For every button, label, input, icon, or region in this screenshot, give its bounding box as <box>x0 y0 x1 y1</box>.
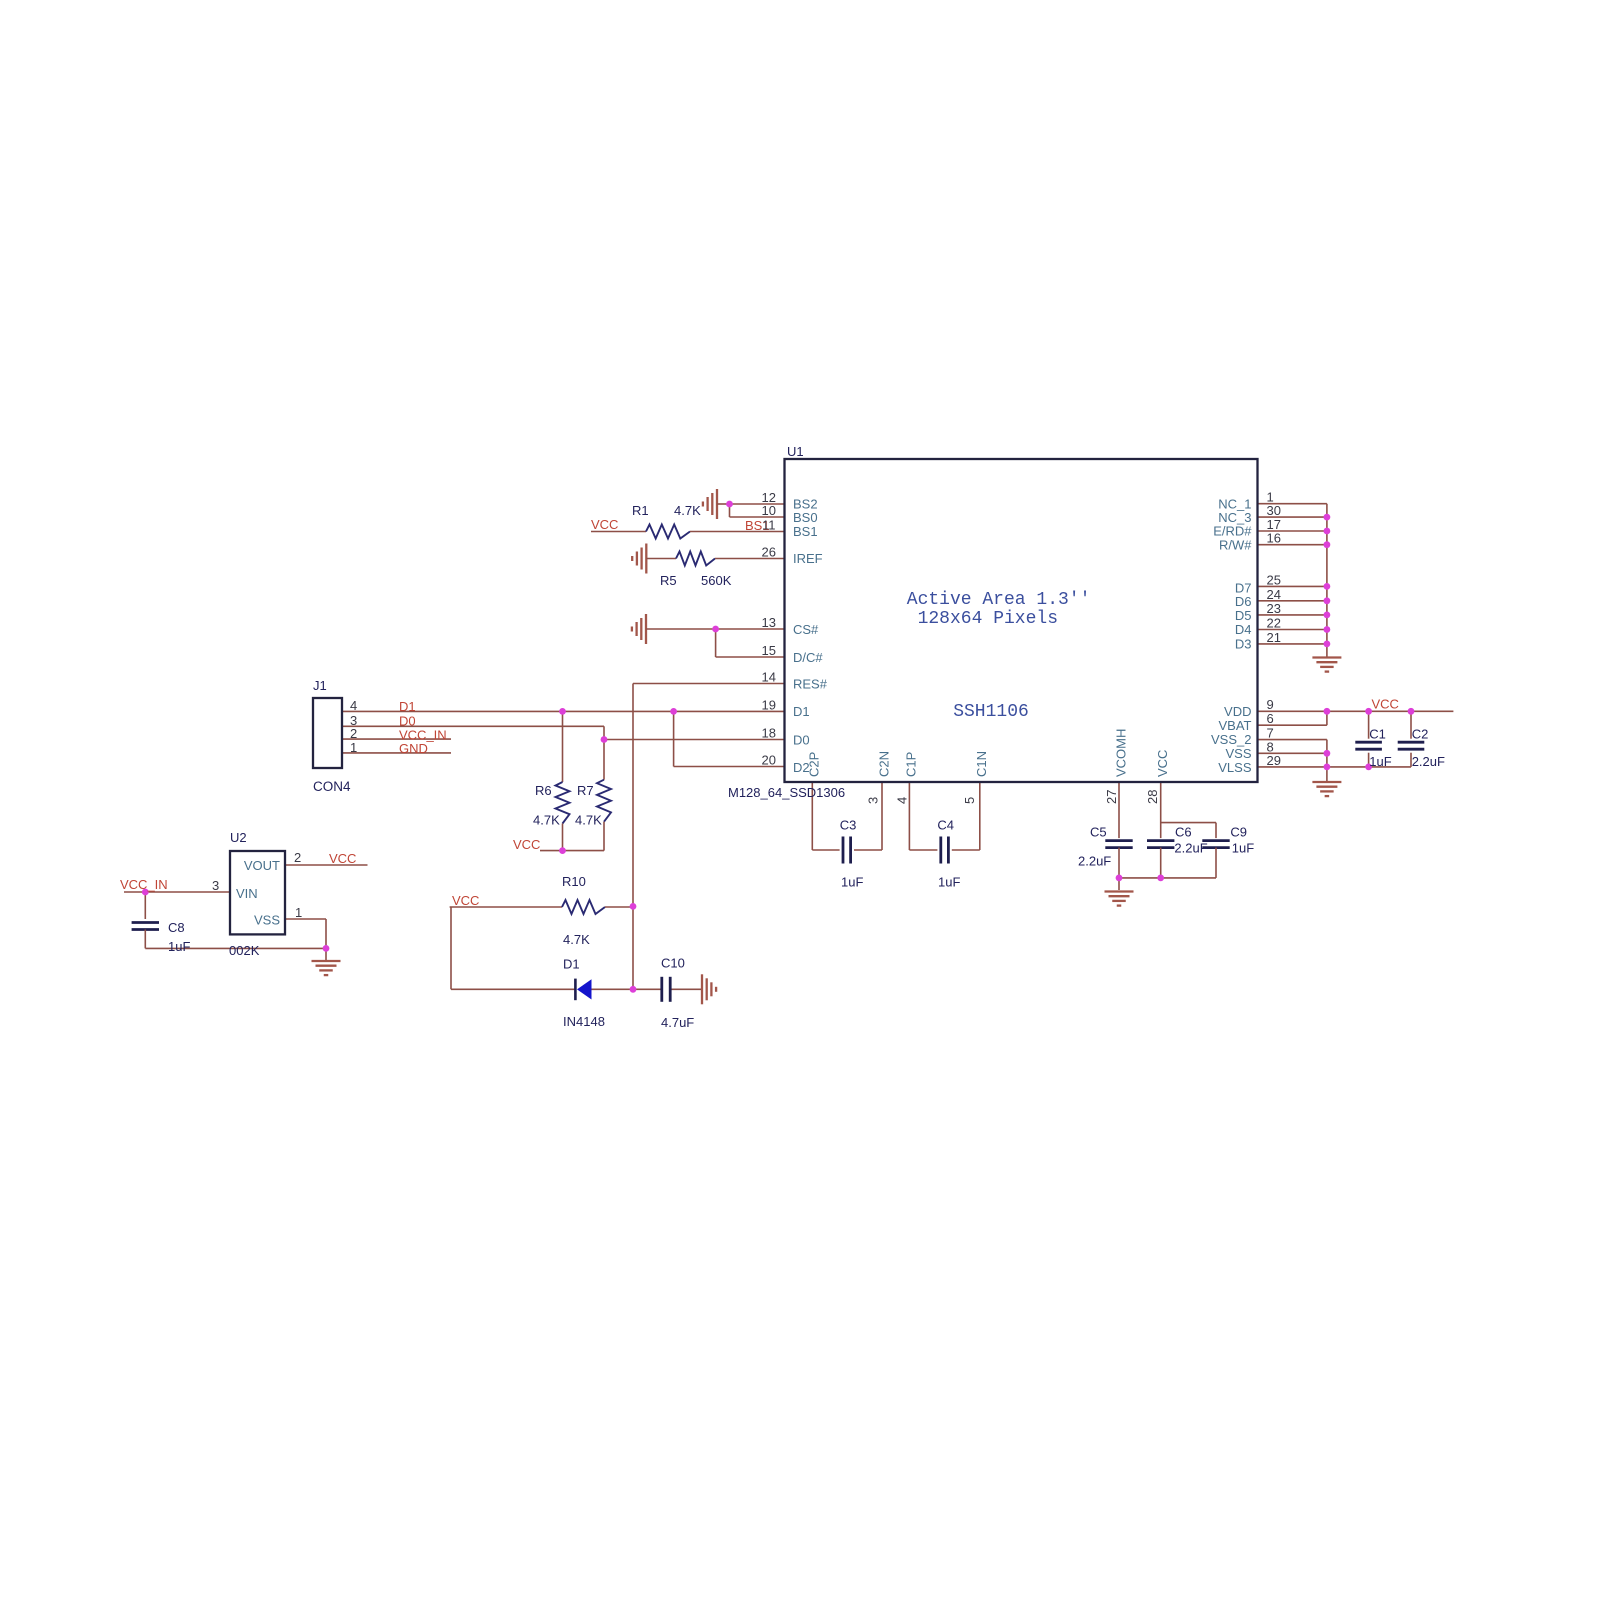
svg-text:M128_64_SSD1306: M128_64_SSD1306 <box>728 785 845 800</box>
svg-text:2.2uF: 2.2uF <box>1078 854 1111 869</box>
svg-text:2: 2 <box>294 850 301 865</box>
svg-text:560K: 560K <box>701 573 732 588</box>
svg-text:15: 15 <box>762 643 776 658</box>
svg-text:18: 18 <box>762 726 776 741</box>
svg-text:VDD: VDD <box>1224 704 1251 719</box>
svg-text:26: 26 <box>762 545 776 560</box>
svg-text:R6: R6 <box>535 783 552 798</box>
svg-text:6: 6 <box>1267 711 1274 726</box>
svg-text:VCOMH: VCOMH <box>1113 729 1128 777</box>
svg-text:D1: D1 <box>563 957 580 972</box>
svg-text:1uF: 1uF <box>1369 754 1391 769</box>
svg-text:128x64 Pixels: 128x64 Pixels <box>918 609 1058 629</box>
svg-text:R10: R10 <box>562 874 586 889</box>
svg-text:2: 2 <box>350 726 357 741</box>
svg-text:3: 3 <box>212 878 219 893</box>
svg-text:4.7K: 4.7K <box>533 813 560 828</box>
svg-text:21: 21 <box>1267 630 1281 645</box>
svg-text:C2: C2 <box>1412 727 1429 742</box>
svg-text:16: 16 <box>1267 531 1281 546</box>
svg-text:28: 28 <box>1145 790 1160 804</box>
svg-text:Active Area 1.3'': Active Area 1.3'' <box>907 590 1091 610</box>
svg-text:E/RD#: E/RD# <box>1213 524 1252 539</box>
svg-text:1uF: 1uF <box>938 875 960 890</box>
svg-text:24: 24 <box>1267 587 1281 602</box>
svg-text:4: 4 <box>350 698 357 713</box>
svg-text:GND: GND <box>399 741 428 756</box>
svg-text:23: 23 <box>1267 601 1281 616</box>
svg-text:4: 4 <box>895 797 910 804</box>
svg-text:U2: U2 <box>230 830 247 845</box>
svg-text:C1: C1 <box>1369 727 1386 742</box>
svg-text:D1: D1 <box>399 699 416 714</box>
svg-text:RES#: RES# <box>793 677 828 692</box>
svg-text:VCC: VCC <box>452 893 479 908</box>
svg-text:CON4: CON4 <box>313 779 351 794</box>
svg-text:4.7K: 4.7K <box>674 503 701 518</box>
svg-text:C1P: C1P <box>904 752 919 777</box>
svg-text:4.7K: 4.7K <box>563 932 590 947</box>
svg-text:D1: D1 <box>793 704 810 719</box>
svg-text:27: 27 <box>1104 790 1119 804</box>
svg-text:VSS: VSS <box>1225 746 1251 761</box>
svg-text:1uF: 1uF <box>168 939 190 954</box>
svg-text:D4: D4 <box>1235 622 1252 637</box>
svg-text:BS1: BS1 <box>793 524 818 539</box>
svg-text:BS0: BS0 <box>793 510 818 525</box>
svg-text:VCC: VCC <box>591 517 618 532</box>
svg-text:U1: U1 <box>787 444 804 459</box>
svg-text:1: 1 <box>295 905 302 920</box>
svg-text:D6: D6 <box>1235 594 1252 609</box>
svg-text:VSS: VSS <box>254 913 280 928</box>
svg-text:VOUT: VOUT <box>244 858 280 873</box>
svg-text:D3: D3 <box>1235 637 1252 652</box>
svg-text:D0: D0 <box>793 733 810 748</box>
svg-text:D0: D0 <box>399 714 416 729</box>
svg-text:VSS_2: VSS_2 <box>1211 732 1251 747</box>
svg-text:2.2uF: 2.2uF <box>1174 841 1207 856</box>
svg-text:D/C#: D/C# <box>793 650 823 665</box>
svg-text:1uF: 1uF <box>841 875 863 890</box>
svg-text:C10: C10 <box>661 956 685 971</box>
svg-text:SSH1106: SSH1106 <box>953 702 1029 722</box>
svg-text:VBAT: VBAT <box>1219 718 1252 733</box>
svg-text:1uF: 1uF <box>1232 841 1254 856</box>
svg-text:C9: C9 <box>1230 825 1247 840</box>
svg-text:IN4148: IN4148 <box>563 1014 605 1029</box>
svg-text:9: 9 <box>1267 697 1274 712</box>
svg-text:10: 10 <box>762 503 776 518</box>
svg-text:1: 1 <box>350 740 357 755</box>
svg-text:VCC: VCC <box>513 837 540 852</box>
svg-text:2.2uF: 2.2uF <box>1412 754 1445 769</box>
svg-text:C5: C5 <box>1090 825 1107 840</box>
svg-text:R5: R5 <box>660 573 677 588</box>
svg-text:C4: C4 <box>937 818 954 833</box>
svg-text:25: 25 <box>1267 573 1281 588</box>
svg-text:7: 7 <box>1267 726 1274 741</box>
svg-text:14: 14 <box>762 670 776 685</box>
svg-text:002K: 002K <box>229 943 260 958</box>
svg-text:VCC_IN: VCC_IN <box>120 877 168 892</box>
svg-text:VCC: VCC <box>1372 697 1399 712</box>
svg-text:4.7uF: 4.7uF <box>661 1015 694 1030</box>
svg-text:13: 13 <box>762 615 776 630</box>
svg-text:R/W#: R/W# <box>1219 538 1252 553</box>
svg-text:VCC: VCC <box>1155 750 1170 777</box>
svg-text:IREF: IREF <box>793 551 823 566</box>
svg-text:D5: D5 <box>1235 608 1252 623</box>
svg-text:5: 5 <box>962 797 977 804</box>
svg-text:3: 3 <box>866 797 881 804</box>
svg-text:C2N: C2N <box>876 751 891 777</box>
svg-text:VCC: VCC <box>329 851 356 866</box>
svg-text:11: 11 <box>762 518 776 533</box>
svg-text:J1: J1 <box>313 678 327 693</box>
svg-text:C3: C3 <box>840 818 857 833</box>
svg-text:CS#: CS# <box>793 622 819 637</box>
svg-text:R1: R1 <box>632 503 649 518</box>
svg-text:30: 30 <box>1267 503 1281 518</box>
svg-text:20: 20 <box>762 753 776 768</box>
svg-text:C1N: C1N <box>974 751 989 777</box>
svg-text:22: 22 <box>1267 616 1281 631</box>
svg-text:C6: C6 <box>1175 825 1192 840</box>
svg-text:VIN: VIN <box>236 886 258 901</box>
svg-text:C8: C8 <box>168 920 185 935</box>
svg-text:19: 19 <box>762 698 776 713</box>
svg-text:VLSS: VLSS <box>1218 760 1252 775</box>
svg-text:29: 29 <box>1267 753 1281 768</box>
svg-text:4.7K: 4.7K <box>575 813 602 828</box>
svg-text:R7: R7 <box>577 783 594 798</box>
svg-text:C2P: C2P <box>807 752 822 777</box>
